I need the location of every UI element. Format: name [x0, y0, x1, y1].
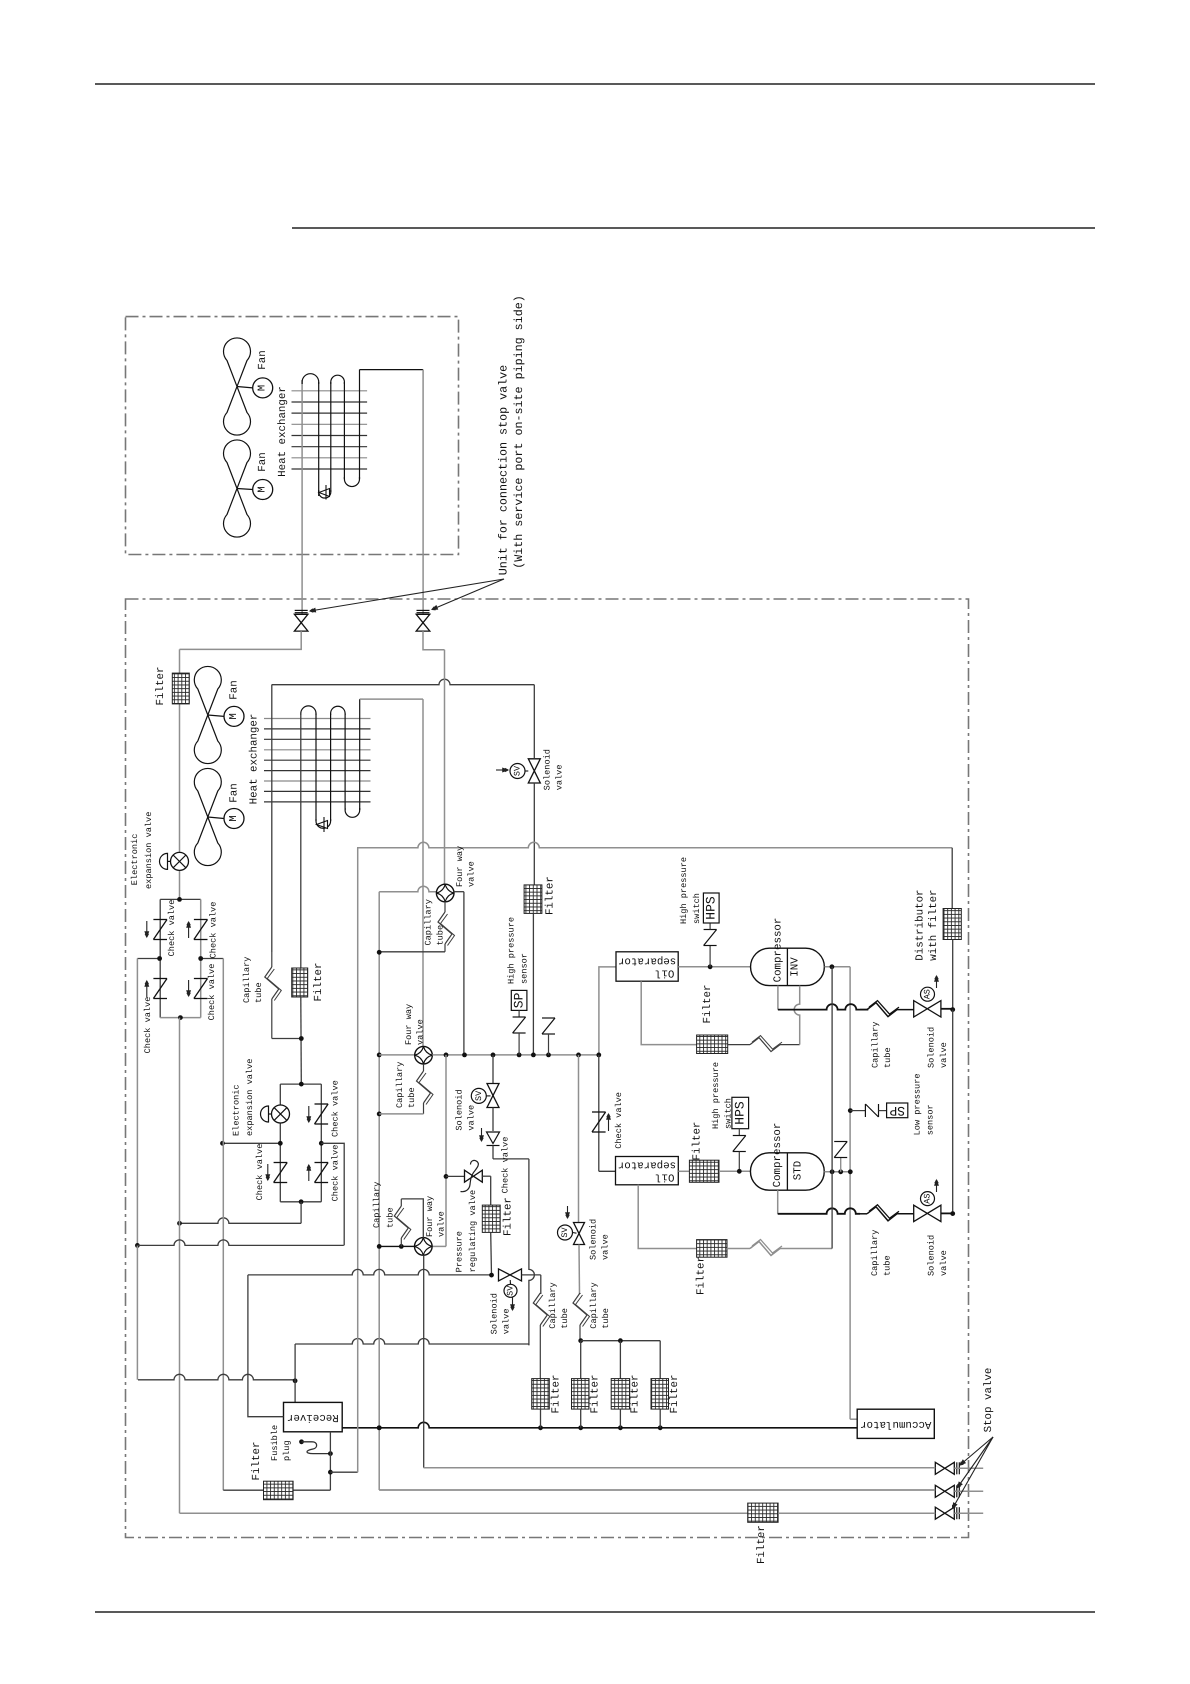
svg-text:Heat exchanger: Heat exchanger — [277, 386, 289, 477]
svg-text:tube: tube — [386, 1207, 396, 1228]
svg-text:Oil: Oil — [655, 967, 674, 979]
svg-text:Check valve: Check valve — [501, 1137, 511, 1194]
svg-text:tube: tube — [436, 925, 446, 946]
svg-text:INV: INV — [790, 957, 802, 977]
svg-text:Filter: Filter — [155, 667, 167, 706]
svg-text:Low pressure: Low pressure — [913, 1073, 923, 1135]
svg-text:separator: separator — [618, 955, 676, 967]
svg-text:Check valve: Check valve — [255, 1144, 265, 1201]
svg-text:HPS: HPS — [704, 896, 719, 920]
svg-text:AS: AS — [923, 1193, 933, 1203]
svg-text:SP: SP — [889, 1103, 905, 1118]
svg-text:valve: valve — [416, 1019, 426, 1045]
svg-text:M: M — [228, 713, 240, 719]
svg-text:Filter: Filter — [545, 876, 557, 915]
svg-text:tube: tube — [883, 1255, 893, 1276]
svg-text:valve: valve — [601, 1234, 611, 1260]
svg-text:tube: tube — [883, 1047, 893, 1068]
svg-text:SV: SV — [506, 1285, 516, 1296]
svg-text:Fusible: Fusible — [270, 1425, 280, 1461]
svg-text:M: M — [257, 486, 269, 492]
svg-text:Electronic: Electronic — [232, 1084, 242, 1136]
svg-text:Solenoid: Solenoid — [455, 1089, 465, 1130]
svg-text:tube: tube — [254, 982, 264, 1003]
svg-text:Check valve: Check valve — [209, 902, 219, 959]
svg-text:Capillary: Capillary — [424, 899, 434, 945]
svg-text:Four way: Four way — [425, 1196, 435, 1237]
svg-text:tube: tube — [560, 1308, 570, 1329]
svg-text:Capillary: Capillary — [870, 1230, 880, 1276]
svg-text:with filter: with filter — [928, 889, 940, 960]
svg-text:Filter: Filter — [692, 1122, 704, 1161]
svg-text:Check valve: Check valve — [331, 1080, 341, 1137]
svg-text:valve: valve — [502, 1309, 512, 1335]
svg-text:Capillary: Capillary — [871, 1022, 881, 1068]
svg-text:Four way: Four way — [455, 846, 465, 887]
svg-text:Solenoid: Solenoid — [490, 1293, 500, 1334]
svg-text:sensor: sensor — [520, 953, 530, 984]
svg-text:tube: tube — [407, 1087, 417, 1108]
svg-text:valve: valve — [437, 1211, 447, 1237]
svg-text:Solenoid: Solenoid — [927, 1235, 937, 1276]
svg-text:Four way: Four way — [404, 1004, 414, 1045]
svg-text:High pressure: High pressure — [711, 1062, 721, 1129]
svg-text:Solenoid: Solenoid — [543, 749, 553, 790]
svg-text:HPS: HPS — [733, 1101, 748, 1125]
svg-text:Filter: Filter — [702, 985, 714, 1024]
svg-text:switch: switch — [724, 1098, 734, 1129]
svg-text:Solenoid: Solenoid — [927, 1027, 937, 1068]
svg-text:valve: valve — [939, 1250, 949, 1276]
svg-text:Fan: Fan — [257, 350, 269, 369]
svg-text:expansion valve: expansion valve — [144, 812, 154, 889]
svg-text:valve: valve — [467, 861, 477, 887]
svg-text:valve: valve — [939, 1042, 949, 1068]
svg-text:Filter: Filter — [630, 1375, 642, 1414]
svg-text:M: M — [257, 385, 269, 391]
svg-text:SP: SP — [512, 992, 527, 1008]
svg-text:Check valve: Check valve — [207, 964, 217, 1021]
svg-text:sensor: sensor — [926, 1104, 936, 1135]
svg-text:Filter: Filter — [551, 1375, 563, 1414]
svg-text:(With service port on-site pip: (With service port on-site piping side) — [512, 295, 526, 569]
svg-text:Check valve: Check valve — [331, 1145, 341, 1202]
svg-text:plug: plug — [282, 1440, 292, 1461]
svg-text:Check valve: Check valve — [167, 900, 177, 957]
svg-text:SV: SV — [560, 1227, 570, 1238]
svg-text:Stop valve: Stop valve — [983, 1368, 995, 1433]
svg-text:regulating valve: regulating valve — [468, 1190, 478, 1273]
svg-text:Filter: Filter — [251, 1442, 263, 1481]
svg-text:Pressure: Pressure — [455, 1231, 465, 1272]
svg-text:STD: STD — [793, 1161, 805, 1180]
svg-text:Accumulator: Accumulator — [860, 1418, 931, 1430]
svg-text:Filter: Filter — [590, 1375, 602, 1414]
svg-text:Fan: Fan — [229, 680, 241, 699]
svg-text:Receiver: Receiver — [287, 1411, 339, 1423]
svg-text:Filter: Filter — [756, 1525, 768, 1564]
svg-text:switch: switch — [692, 893, 702, 924]
svg-text:Compressor: Compressor — [772, 1123, 784, 1188]
svg-text:Oil: Oil — [655, 1171, 674, 1183]
svg-text:Filter: Filter — [503, 1197, 515, 1236]
svg-text:M: M — [228, 815, 240, 821]
svg-text:valve: valve — [467, 1105, 477, 1131]
svg-text:Electronic: Electronic — [130, 834, 140, 886]
svg-text:Capillary: Capillary — [372, 1182, 382, 1228]
svg-text:Fan: Fan — [257, 452, 269, 471]
svg-text:Fan: Fan — [229, 783, 241, 802]
svg-text:expansion valve: expansion valve — [245, 1059, 255, 1136]
svg-text:Heat exchanger: Heat exchanger — [249, 714, 261, 805]
svg-text:High pressure: High pressure — [507, 917, 517, 984]
svg-text:separator: separator — [618, 1159, 676, 1171]
svg-text:Compressor: Compressor — [773, 918, 785, 983]
svg-text:Filter: Filter — [313, 963, 325, 1002]
svg-text:Capillary: Capillary — [548, 1282, 558, 1328]
svg-text:Filter: Filter — [696, 1256, 708, 1295]
svg-text:Distributor: Distributor — [915, 889, 927, 960]
svg-text:Unit for connection stop valve: Unit for connection stop valve — [497, 365, 511, 575]
svg-text:SV: SV — [474, 1090, 484, 1101]
svg-text:tube: tube — [601, 1308, 611, 1329]
svg-text:Solenoid: Solenoid — [589, 1219, 599, 1260]
svg-text:valve: valve — [555, 765, 565, 791]
svg-text:Capillary: Capillary — [242, 957, 252, 1003]
svg-text:Capillary: Capillary — [589, 1282, 599, 1328]
svg-text:AS: AS — [923, 989, 933, 999]
svg-text:Capillary: Capillary — [395, 1062, 405, 1108]
svg-text:Filter: Filter — [669, 1375, 681, 1414]
svg-text:Check valve: Check valve — [143, 997, 153, 1054]
svg-text:High pressure: High pressure — [679, 857, 689, 924]
svg-text:Check valve: Check valve — [614, 1092, 624, 1149]
svg-text:SV: SV — [513, 765, 523, 776]
